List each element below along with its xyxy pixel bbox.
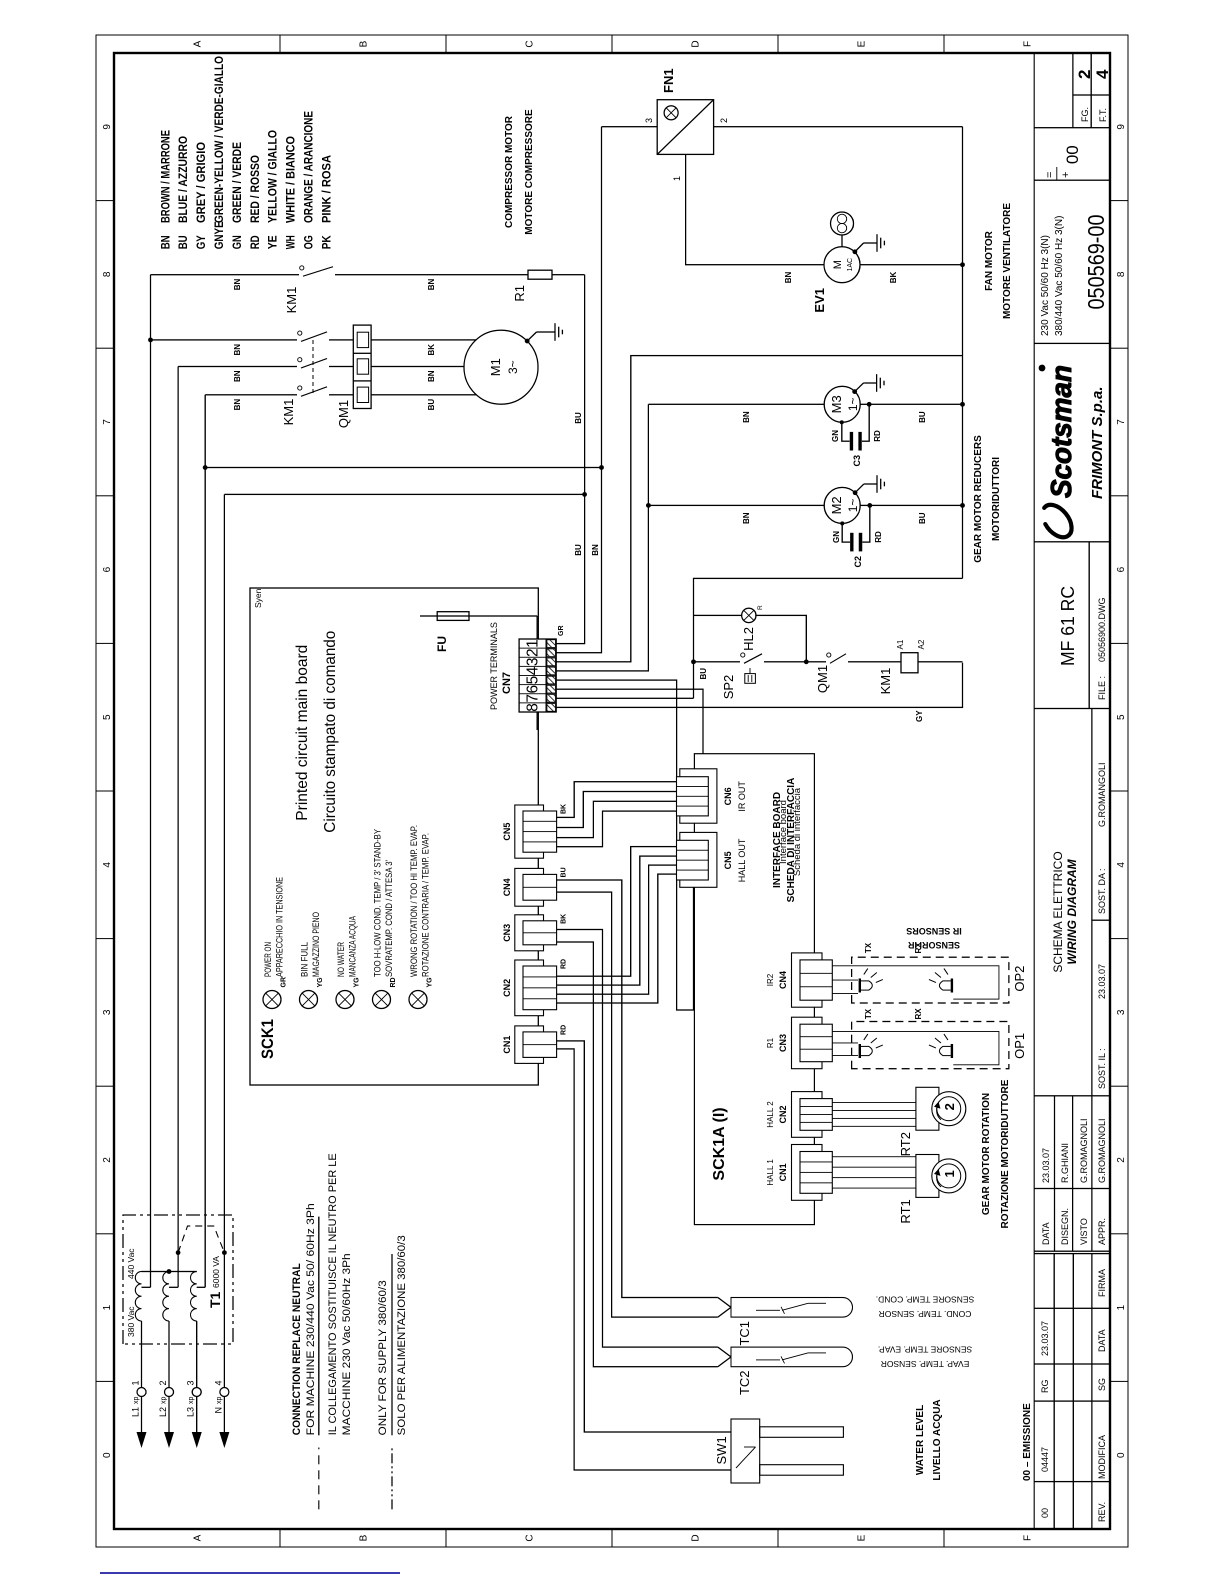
node HL2 branch <box>804 659 809 664</box>
svg-text:WIRING DIAGRAM: WIRING DIAGRAM <box>1065 858 1079 964</box>
svg-text:C3: C3 <box>852 455 862 467</box>
svg-text:BN: BN <box>784 271 793 283</box>
svg-text:BIN FULL: BIN FULL <box>300 942 310 977</box>
svg-text:COMPRESSOR MOTOR: COMPRESSOR MOTOR <box>504 115 515 228</box>
wire CN7-3 to fan return <box>556 356 962 662</box>
svg-text:Syen: Syen <box>253 588 263 608</box>
rotation sensor RT1 <box>832 1187 916 1189</box>
svg-text:CN4: CN4 <box>778 971 788 989</box>
interface board SCK1A <box>694 754 814 1225</box>
svg-text:RX: RX <box>914 1008 923 1020</box>
svg-text:Interface board: Interface board <box>778 800 789 864</box>
svg-text:EVAP. TEMP. SENSOR: EVAP. TEMP. SENSOR <box>881 1359 970 1369</box>
svg-text:FOR MACHINE 230/440 Vac 50/ 60: FOR MACHINE 230/440 Vac 50/ 60Hz 3Ph <box>305 1203 317 1435</box>
svg-text:C2: C2 <box>853 556 863 568</box>
svg-text:GR: GR <box>558 626 565 637</box>
blue artifact line <box>100 1572 400 1574</box>
svg-text:5: 5 <box>525 676 542 685</box>
svg-text:BU: BU <box>699 668 708 680</box>
svg-text:SOLO PER ALIMENTAZIONE 380/60/: SOLO PER ALIMENTAZIONE 380/60/3 <box>396 1235 408 1435</box>
node bus3 drop top <box>203 465 208 470</box>
svg-text:GN: GN <box>832 531 841 543</box>
svg-text:23.03.07: 23.03.07 <box>1041 1148 1051 1183</box>
svg-text:RD: RD <box>248 235 262 249</box>
svg-text:DATA: DATA <box>1041 1222 1051 1245</box>
svg-text:MODIFICA: MODIFICA <box>1097 1435 1107 1479</box>
svg-text:2: 2 <box>1116 1157 1127 1163</box>
svg-text:RD: RD <box>561 959 568 969</box>
svg-text:IR SENSORS: IR SENSORS <box>906 926 962 936</box>
svg-text:TC2: TC2 <box>737 1371 752 1396</box>
wire CN7-6 <box>556 689 703 754</box>
svg-text:D: D <box>691 1534 702 1541</box>
wires QM1 to M1 <box>371 339 476 341</box>
svg-text:RD: RD <box>561 1025 568 1035</box>
svg-text:FAN MOTOR: FAN MOTOR <box>984 230 995 291</box>
coil KM1 <box>901 653 918 673</box>
connector CN5 <box>515 805 544 858</box>
connector CN1 interface HALL1 <box>792 1145 823 1201</box>
svg-text:SG: SG <box>1097 1378 1107 1391</box>
connector CN1 <box>515 1026 544 1064</box>
wire FN1-1 to EV1 <box>686 154 824 264</box>
svg-text:BN: BN <box>233 344 242 356</box>
main board SCK1 <box>250 588 538 1085</box>
svg-text:BN: BN <box>742 512 751 524</box>
svg-text:230 Vac 50/60 Hz 3(N): 230 Vac 50/60 Hz 3(N) <box>1040 235 1051 336</box>
svg-text:FG.: FG. <box>1080 107 1090 122</box>
indicator lamp YG <box>409 991 427 1009</box>
svg-text:+: + <box>1060 172 1072 178</box>
lamp HL2 branch <box>755 615 806 661</box>
svg-text:A1: A1 <box>896 639 905 649</box>
svg-text:DISEGN.: DISEGN. <box>1060 1208 1070 1245</box>
wire to M3 <box>648 403 823 405</box>
svg-text:VISTO: VISTO <box>1079 1218 1089 1245</box>
fan symbol <box>841 235 843 247</box>
svg-text:GN: GN <box>831 430 840 442</box>
svg-text:A: A <box>193 1534 204 1541</box>
svg-text:00: 00 <box>1063 145 1082 164</box>
svg-text:HALL 2: HALL 2 <box>766 1101 775 1128</box>
svg-text:2: 2 <box>158 1380 168 1385</box>
svg-text:xp: xp <box>216 1397 223 1405</box>
svg-text:CN7: CN7 <box>501 672 513 694</box>
svg-text:SENSORE TEMP. EVAP.: SENSORE TEMP. EVAP. <box>878 1344 972 1354</box>
svg-text:BK: BK <box>427 344 436 356</box>
FG / FT box <box>1072 54 1074 128</box>
node bus1 <box>148 338 153 343</box>
svg-text:YG: YG <box>317 977 324 988</box>
svg-text:GY: GY <box>915 710 924 722</box>
svg-text:6: 6 <box>102 566 113 572</box>
dashed line sample <box>318 1448 320 1510</box>
svg-text:BU: BU <box>918 512 927 524</box>
svg-text:9: 9 <box>102 124 113 130</box>
node star <box>167 1269 172 1274</box>
svg-text:C: C <box>525 40 536 47</box>
connector CN4 interface IR2 <box>792 953 823 1007</box>
svg-text:GREEN / VERDE: GREEN / VERDE <box>230 142 244 223</box>
svg-text:TOO H-LOW COND. TEMP / 3' STAN: TOO H-LOW COND. TEMP / 3' STAND-BY <box>373 829 383 977</box>
svg-text:BU: BU <box>918 411 927 423</box>
svg-text:3~: 3~ <box>506 360 520 374</box>
svg-text:BU: BU <box>574 544 583 556</box>
svg-text:Scotsman: Scotsman <box>1046 365 1078 498</box>
connector CN4 <box>515 868 544 906</box>
svg-text:KM1: KM1 <box>281 399 296 426</box>
svg-text:M2: M2 <box>829 496 844 514</box>
svg-text:L2: L2 <box>158 1407 168 1417</box>
svg-text:F.T.: F.T. <box>1098 108 1108 122</box>
dash-dot-dot line sample <box>391 1448 393 1510</box>
transformer T1 windings <box>135 1271 141 1321</box>
svg-text:WH: WH <box>284 235 298 249</box>
svg-text:OP1: OP1 <box>1012 1033 1027 1059</box>
svg-text:1: 1 <box>672 176 682 181</box>
svg-text:APPR.: APPR. <box>1097 1218 1107 1245</box>
capacitor C2 <box>850 533 853 552</box>
bundle CN2 to interface CN5 <box>557 847 677 977</box>
IR sensor box <box>852 1022 1009 1069</box>
M2 return <box>860 504 962 506</box>
svg-text:DATA: DATA <box>1097 1329 1107 1352</box>
svg-text:1: 1 <box>525 639 542 648</box>
svg-text:05056900.DWG: 05056900.DWG <box>1097 597 1107 662</box>
svg-text:T1: T1 <box>207 1291 223 1308</box>
terminal L3 <box>192 1432 202 1448</box>
svg-text:POWER ON: POWER ON <box>263 942 273 977</box>
svg-text:SCK1A (I): SCK1A (I) <box>711 1107 728 1180</box>
svg-text:3: 3 <box>102 1009 113 1015</box>
svg-text:LIVELLO ACQUA: LIVELLO ACQUA <box>932 1399 943 1480</box>
contact link dashed <box>312 338 314 393</box>
LED RX <box>951 979 953 993</box>
resistor R1 <box>528 270 552 279</box>
svg-text:7: 7 <box>1116 419 1127 425</box>
connector CN2 interface HALL2 <box>792 1092 823 1138</box>
svg-text:B: B <box>359 1534 370 1541</box>
svg-text:GN: GN <box>230 235 244 249</box>
svg-text:3: 3 <box>525 657 542 666</box>
svg-text:7: 7 <box>102 419 113 425</box>
svg-text:BROWN / MARRONE: BROWN / MARRONE <box>158 130 172 223</box>
schema cell <box>1091 709 1093 1096</box>
svg-text:2: 2 <box>942 1103 957 1110</box>
svg-text:E: E <box>857 1534 868 1541</box>
svg-text:MANCANZA ACQUA: MANCANZA ACQUA <box>348 916 358 977</box>
wire loop <box>832 966 999 999</box>
filter FN1 <box>657 100 713 155</box>
svg-text:OG: OG <box>302 235 316 249</box>
svg-text:0: 0 <box>102 1452 113 1458</box>
svg-text:QM1: QM1 <box>815 665 830 693</box>
star point wire <box>142 1271 197 1273</box>
svg-text:23.03.07: 23.03.07 <box>1097 964 1107 999</box>
svg-text:ROTAZIONE MOTORIDUTTORE: ROTAZIONE MOTORIDUTTORE <box>1000 1079 1011 1228</box>
svg-text:CN3: CN3 <box>502 924 512 942</box>
svg-text:Printed circuit main board: Printed circuit main board <box>294 645 311 821</box>
neutral drop <box>224 493 584 495</box>
temp sensor TC1 <box>718 1307 731 1317</box>
CN7 stub <box>536 712 538 730</box>
indicator lamp YG <box>336 991 354 1009</box>
svg-text:ROTAZIONE CONTRARIA / TEMP. EV: ROTAZIONE CONTRARIA / TEMP. EVAP. <box>421 833 431 977</box>
svg-text:RT2: RT2 <box>898 1132 913 1156</box>
bus3 drop <box>205 467 601 469</box>
wire <box>141 1321 143 1388</box>
neutral wire N <box>223 494 225 1387</box>
LED TX <box>859 1044 861 1058</box>
svg-text:R: R <box>757 605 764 610</box>
MF 61 RC cell <box>1088 542 1090 709</box>
svg-text:YG: YG <box>354 977 361 988</box>
svg-text:3: 3 <box>644 118 654 123</box>
svg-text:SOST. IL :: SOST. IL : <box>1097 1048 1107 1089</box>
svg-text:G.ROMANGOLI: G.ROMANGOLI <box>1097 762 1107 827</box>
svg-text:CN2: CN2 <box>778 1105 788 1123</box>
svg-text:23.03.07: 23.03.07 <box>1040 1321 1050 1356</box>
svg-text:CN6: CN6 <box>723 787 733 805</box>
wire <box>196 1321 198 1388</box>
terminal L2 <box>164 1432 174 1448</box>
svg-text:RD: RD <box>390 977 397 987</box>
svg-text:4: 4 <box>1116 862 1127 868</box>
svg-text:3: 3 <box>1116 1009 1127 1015</box>
wire CN7-4 gear feed <box>556 404 648 671</box>
wire to M2 <box>648 504 824 506</box>
M3 return <box>860 403 962 405</box>
svg-text:MACCHINE 230 Vac 50/60Hz 3Ph: MACCHINE 230 Vac 50/60Hz 3Ph <box>341 1253 353 1435</box>
svg-text:A2: A2 <box>917 639 926 649</box>
node rung top <box>691 659 696 664</box>
svg-text:TX: TX <box>864 942 873 953</box>
svg-text:RG: RG <box>1040 1380 1050 1394</box>
svg-text:TC1: TC1 <box>737 1321 752 1346</box>
svg-text:Circuito stampato di comand: Circuito stampato di comando <box>322 631 339 833</box>
wire CN7-5 <box>556 680 693 1010</box>
svg-text:A: A <box>193 40 204 47</box>
svg-text:IR2: IR2 <box>766 973 775 986</box>
svg-text:8: 8 <box>1116 271 1127 277</box>
ground at EV1 <box>853 249 858 254</box>
svg-text:00 – EMISSIONE: 00 – EMISSIONE <box>1022 1403 1033 1481</box>
indicator lamp YG <box>300 991 318 1009</box>
svg-text:BN: BN <box>427 370 436 382</box>
svg-text:BK: BK <box>889 271 898 283</box>
wires CN1 to SW1 <box>557 1041 731 1432</box>
svg-text:050569-00: 050569-00 <box>1083 215 1109 310</box>
svg-text:BN: BN <box>591 544 600 556</box>
svg-text:BU: BU <box>176 235 190 249</box>
node gear feed M2 <box>646 503 651 508</box>
taps to buses <box>142 1286 151 1288</box>
fan motor EV1 <box>824 247 860 283</box>
svg-text:xp: xp <box>133 1397 140 1405</box>
svg-text:380 Vac: 380 Vac <box>126 1306 136 1337</box>
svg-text:PINK / ROSA: PINK / ROSA <box>319 155 333 223</box>
svg-text:1AC: 1AC <box>847 258 854 272</box>
pressure switch SP2 <box>744 654 762 664</box>
svg-text:YG: YG <box>427 977 434 988</box>
svg-text:9: 9 <box>1116 124 1127 130</box>
svg-text:L3: L3 <box>186 1407 196 1417</box>
svg-text:F: F <box>1023 41 1034 47</box>
LED TX <box>859 979 861 993</box>
electrode prongs <box>760 1427 844 1438</box>
power terminals CN7 <box>519 639 556 712</box>
svg-text:BK: BK <box>561 804 568 814</box>
svg-text:GR: GR <box>281 977 288 988</box>
indicator lamp RD <box>373 991 391 1009</box>
contact KM1 aux <box>300 266 304 270</box>
svg-text:=: = <box>1044 172 1056 178</box>
svg-text:BU: BU <box>427 399 436 411</box>
svg-text:GREY / GRIGIO: GREY / GRIGIO <box>194 142 208 223</box>
svg-text:KM1: KM1 <box>284 287 299 314</box>
approvals block <box>1054 1096 1056 1251</box>
transformer T1 box <box>123 1215 233 1344</box>
svg-text:CN2: CN2 <box>502 979 512 997</box>
svg-text:1: 1 <box>102 1304 113 1310</box>
svg-text:440 Vac: 440 Vac <box>126 1248 136 1279</box>
wire FN1-2 down <box>714 126 963 128</box>
connector CN3 interface R1 <box>792 1017 823 1068</box>
svg-text:1: 1 <box>942 1170 957 1177</box>
svg-text:FILE :: FILE : <box>1097 676 1107 700</box>
svg-text:SCK1: SCK1 <box>258 1019 277 1059</box>
svg-text:REV.: REV. <box>1097 1502 1107 1522</box>
water level switch SW1 <box>731 1419 760 1483</box>
wire <box>168 1321 170 1388</box>
svg-text:SENSORI IR: SENSORI IR <box>907 940 960 950</box>
svg-text:4: 4 <box>1093 69 1112 79</box>
svg-text:CN3: CN3 <box>778 1034 788 1052</box>
svg-text:00: 00 <box>1040 1508 1050 1518</box>
svg-text:CN5: CN5 <box>723 851 733 869</box>
fuse FU <box>420 615 537 617</box>
KM1 aux line with R1 <box>151 274 300 276</box>
svg-text:TX: TX <box>864 1008 873 1019</box>
bus L1 <box>150 275 152 1288</box>
contact QM1 aux <box>806 661 826 663</box>
svg-text:CONNECTION REPLACE NEUTRAL: CONNECTION REPLACE NEUTRAL <box>291 1263 303 1435</box>
svg-text:RT1: RT1 <box>898 1199 913 1223</box>
svg-text:BU: BU <box>574 412 583 424</box>
svg-text:YELLOW / GIALLO: YELLOW / GIALLO <box>266 130 280 223</box>
motor M2 <box>824 487 860 523</box>
rung to rail <box>918 661 963 663</box>
svg-text:WATER LEVEL: WATER LEVEL <box>915 1405 926 1475</box>
wire EV1 return <box>860 264 963 266</box>
wire CN7-1 to R1 line <box>556 275 584 644</box>
motor M3 <box>824 386 860 422</box>
svg-text:QM1: QM1 <box>336 400 351 428</box>
node drop joins FN1 wire <box>599 465 604 470</box>
connector CN5 interface <box>680 832 717 887</box>
svg-text:380/440 Vac 50/60 Hz 3(N): 380/440 Vac 50/60 Hz 3(N) <box>1054 216 1065 336</box>
wires CN3 to TC2 <box>557 930 718 1348</box>
svg-text:CN5: CN5 <box>502 823 512 841</box>
wire CN7-8 GY return <box>556 663 962 708</box>
svg-text:D: D <box>691 40 702 47</box>
svg-text:HALL OUT: HALL OUT <box>737 838 747 882</box>
svg-text:L1: L1 <box>131 1407 141 1417</box>
svg-text:HL2: HL2 <box>741 627 756 651</box>
rung wire <box>694 661 741 663</box>
svg-text:CN1: CN1 <box>502 1036 512 1054</box>
svg-text:M3: M3 <box>829 395 844 413</box>
svg-text:4: 4 <box>525 666 542 675</box>
ground at M2 <box>853 490 858 495</box>
svg-text:BN: BN <box>233 399 242 411</box>
svg-text:CN1: CN1 <box>778 1163 788 1181</box>
svg-text:6: 6 <box>1116 566 1127 572</box>
svg-text:6: 6 <box>525 685 542 694</box>
svg-text:1: 1 <box>1116 1304 1127 1310</box>
svg-text:xp: xp <box>161 1397 168 1405</box>
svg-text:04447: 04447 <box>1040 1447 1050 1472</box>
svg-text:E: E <box>857 40 868 47</box>
wire loop <box>832 1032 999 1065</box>
svg-text:xp: xp <box>188 1397 195 1405</box>
svg-text:BN: BN <box>233 278 242 290</box>
svg-text:4: 4 <box>102 862 113 868</box>
Scotsman logo cell <box>1034 342 1110 344</box>
node EV1 rail <box>960 262 965 267</box>
svg-text:1~: 1~ <box>846 499 860 513</box>
svg-text:YE: YE <box>266 235 280 249</box>
svg-text:7: 7 <box>525 694 542 703</box>
overload QM1 <box>353 325 371 408</box>
indicator lamp GR <box>263 991 281 1009</box>
svg-text:MF 61 RC: MF 61 RC <box>1058 586 1078 666</box>
svg-text:WHITE / BIANCO: WHITE / BIANCO <box>284 136 298 223</box>
wire CN7-2 to FN1 <box>556 127 601 653</box>
svg-text:G.ROMAGNOLI: G.ROMAGNOLI <box>1079 1118 1089 1183</box>
svg-text:KM1: KM1 <box>878 668 893 695</box>
svg-text:1~: 1~ <box>846 397 860 411</box>
motor M1 <box>464 330 538 404</box>
svg-text:BU: BU <box>561 867 568 877</box>
svg-text:R1: R1 <box>512 285 527 302</box>
IR sensor box <box>852 957 1009 1003</box>
svg-text:2: 2 <box>525 648 542 657</box>
svg-text:SW1: SW1 <box>714 1436 729 1464</box>
svg-text:2: 2 <box>719 118 729 123</box>
svg-text:8: 8 <box>102 271 113 277</box>
capacitor C3 <box>850 432 853 451</box>
svg-text:EV1: EV1 <box>812 288 827 313</box>
svg-text:APPARECCHIO IN TENSIONE: APPARECCHIO IN TENSIONE <box>275 877 285 977</box>
svg-text:MAGAZZINO PIENO: MAGAZZINO PIENO <box>311 912 321 977</box>
svg-text:1: 1 <box>131 1380 141 1385</box>
bundle CN5 to interface CN6 <box>557 782 677 818</box>
terminal L1 <box>137 1432 147 1448</box>
svg-text:FU: FU <box>435 636 449 652</box>
compressor phase wires <box>151 339 298 341</box>
svg-text:BN: BN <box>427 278 436 290</box>
svg-text:M: M <box>832 260 844 269</box>
svg-text:IL COLLEGAMENTO SOSTITUISCE IL: IL COLLEGAMENTO SOSTITUISCE IL NEUTRO PE… <box>327 1153 339 1435</box>
wires CN4 to TC1 <box>557 880 718 1298</box>
svg-text:SP2: SP2 <box>721 675 736 700</box>
svg-text:COND. TEMP. SENSOR: COND. TEMP. SENSOR <box>879 1309 972 1319</box>
svg-text:MOTORE VENTILATORE: MOTORE VENTILATORE <box>1002 203 1013 319</box>
svg-text:Scheda di interfaccia: Scheda di interfaccia <box>792 787 803 876</box>
connector CN3 <box>515 915 544 951</box>
ground at M3 <box>852 389 857 394</box>
